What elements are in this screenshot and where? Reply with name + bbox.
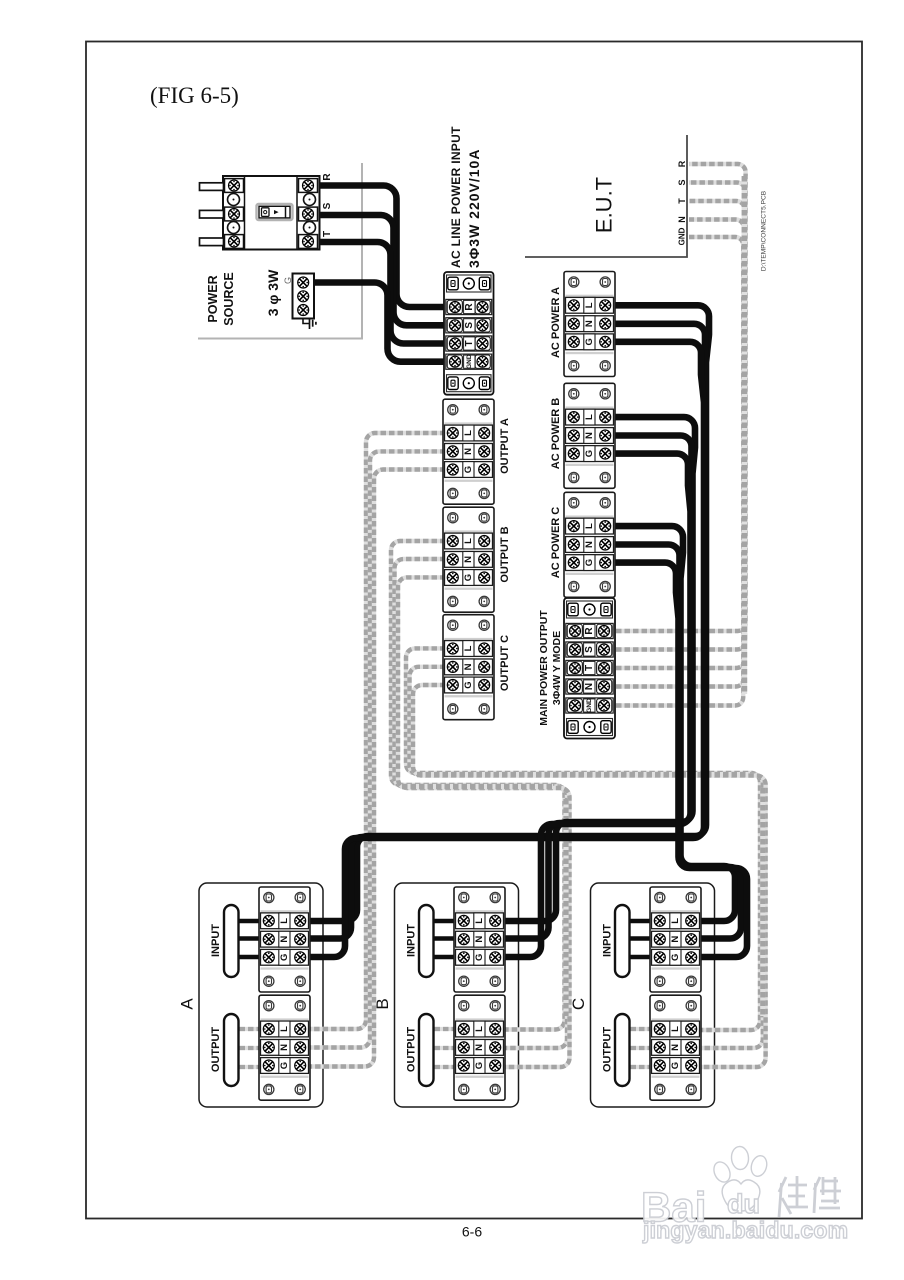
box C INPUT connector pill — [615, 905, 630, 977]
svg-text:T: T — [677, 198, 687, 204]
breaker T wire to AC line input T — [318, 242, 455, 344]
stub wire L: box C INPUT pill to strip — [622, 919, 663, 924]
stub wire G: box A INPUT pill to strip — [231, 955, 272, 960]
OUTPUT A terminal block — [443, 399, 494, 504]
box A OUTPUT terminal strip — [259, 995, 310, 1100]
box B INPUT connector pill — [419, 905, 434, 977]
svg-text:G: G — [670, 954, 681, 961]
stub wire N: box A INPUT pill to strip — [231, 936, 272, 941]
wire G: OUTPUT A block to box A OUTPUT — [302, 470, 454, 1067]
wire N: OUTPUT C block to box C OUTPUT — [410, 667, 763, 1048]
svg-text:N: N — [584, 432, 595, 439]
svg-text:T: T — [464, 340, 475, 346]
svg-text:N: N — [670, 1044, 681, 1051]
svg-text:N: N — [279, 936, 290, 943]
svg-text:OUTPUT: OUTPUT — [210, 1027, 222, 1073]
svg-text:du: du — [727, 1189, 760, 1219]
svg-text:MAIN POWER OUTPUT: MAIN POWER OUTPUT — [538, 610, 550, 726]
svg-text:L: L — [670, 1026, 681, 1032]
breaker S wire to AC line input S — [318, 215, 455, 325]
svg-text:G: G — [279, 954, 290, 961]
stub wire L: box B OUTPUT pill to strip — [426, 1027, 467, 1031]
MAIN POWER OUTPUT terminal block — [564, 598, 615, 739]
AC POWER C terminal block — [564, 492, 615, 597]
svg-text:G: G — [584, 559, 595, 566]
svg-text:L: L — [463, 645, 474, 651]
wire L: OUTPUT A block to box A OUTPUT — [302, 433, 454, 1029]
svg-text:3Φ3W 220V/10A: 3Φ3W 220V/10A — [466, 149, 482, 268]
svg-text:G: G — [279, 1062, 290, 1069]
svg-text:POWER: POWER — [206, 275, 220, 322]
wire L: OUTPUT C block to box C OUTPUT — [406, 648, 760, 1030]
svg-text:L: L — [584, 302, 595, 308]
svg-text:GND: GND — [678, 227, 687, 245]
svg-text:G: G — [463, 681, 474, 688]
AC POWER B terminal block — [564, 383, 615, 488]
svg-text:N: N — [474, 1044, 485, 1051]
stub wire N: box C OUTPUT pill to strip — [622, 1046, 663, 1050]
breaker R wire to AC line input R — [318, 186, 455, 308]
svg-text:G: G — [283, 277, 293, 284]
box C OUTPUT connector pill — [615, 1014, 630, 1086]
stub wire G: box B INPUT pill to strip — [426, 955, 467, 960]
box C OUTPUT terminal strip — [650, 995, 701, 1100]
OUTPUT C terminal block — [443, 615, 494, 720]
Baidu watermark — [641, 1146, 848, 1243]
svg-text:L: L — [474, 1026, 485, 1032]
svg-text:G: G — [584, 338, 595, 345]
svg-text:T: T — [322, 231, 333, 237]
svg-text:T: T — [584, 665, 595, 671]
svg-text:AC LINE POWER INPUT: AC LINE POWER INPUT — [449, 126, 463, 268]
wire N: OUTPUT B block to box B OUTPUT — [395, 559, 568, 1048]
wire L: OUTPUT B block to box B OUTPUT — [391, 541, 565, 1030]
svg-text:N: N — [279, 1044, 290, 1051]
svg-text:jingyan.baidu.com: jingyan.baidu.com — [642, 1217, 848, 1243]
svg-text:S: S — [322, 202, 333, 209]
AC line input terminal block R S T GND — [444, 272, 494, 395]
unit box C — [591, 883, 715, 1107]
box A INPUT connector pill — [224, 905, 239, 977]
svg-text:G: G — [474, 1062, 485, 1069]
wire G: AC POWER C to box C INPUT — [605, 563, 747, 957]
svg-text:L: L — [584, 523, 595, 529]
circuit breaker CB (3-pole) — [200, 176, 320, 250]
wire N: MAIN POWER OUTPUT to E.U.T — [616, 220, 744, 687]
wire N: OUTPUT A block to box A OUTPUT — [302, 451, 454, 1047]
svg-text:L: L — [474, 918, 485, 924]
stub wire N: box B OUTPUT pill to strip — [426, 1046, 467, 1050]
svg-text:G: G — [463, 466, 474, 473]
svg-text:OUTPUT B: OUTPUT B — [499, 526, 511, 582]
svg-text:(FIG 6-5): (FIG 6-5) — [150, 83, 239, 108]
wire G: AC POWER A to box A INPUT — [302, 342, 704, 957]
svg-text:L: L — [279, 918, 290, 924]
svg-text:INPUT: INPUT — [602, 924, 614, 957]
ground block G wire to AC line input GND — [312, 283, 455, 362]
box B INPUT terminal strip — [454, 887, 505, 992]
svg-text:S: S — [584, 646, 595, 653]
svg-text:L: L — [584, 414, 595, 420]
wire S: MAIN POWER OUTPUT to E.U.T — [616, 183, 745, 650]
E.U.T enclosure lines — [525, 135, 687, 257]
svg-text:N: N — [463, 448, 474, 455]
svg-text:N: N — [584, 683, 595, 690]
svg-text:OUTPUT A: OUTPUT A — [499, 418, 511, 474]
svg-text:D:\TEMP\CONNECT5.PCB: D:\TEMP\CONNECT5.PCB — [761, 190, 768, 271]
wire GND: MAIN POWER OUTPUT to E.U.T — [616, 237, 743, 706]
svg-text:AC POWER A: AC POWER A — [550, 287, 562, 358]
svg-text:L: L — [279, 1026, 290, 1032]
stub wire G: box A OUTPUT pill to strip — [231, 1065, 272, 1069]
stub wire N: box A OUTPUT pill to strip — [231, 1046, 272, 1050]
stub wire G: box C OUTPUT pill to strip — [622, 1065, 663, 1069]
wire L: AC POWER C to box C INPUT — [605, 526, 735, 921]
bundle trunk overdraw lines — [742, 176, 748, 694]
svg-text:L: L — [670, 918, 681, 924]
stub wire L: box A INPUT pill to strip — [231, 919, 272, 924]
svg-text:R: R — [584, 627, 595, 635]
wire N: AC POWER A to box A INPUT — [302, 324, 705, 939]
wire N: AC POWER C to box C INPUT — [605, 545, 741, 939]
box A INPUT terminal strip — [259, 887, 310, 992]
ground terminal block (3 screws) — [293, 274, 315, 319]
stub wire G: box C INPUT pill to strip — [622, 955, 663, 960]
svg-text:C: C — [569, 998, 588, 1010]
svg-text:GND: GND — [586, 698, 593, 713]
ground symbol — [303, 319, 309, 324]
box B OUTPUT terminal strip — [454, 995, 505, 1100]
svg-text:E.U.T: E.U.T — [592, 177, 617, 233]
svg-text:OUTPUT C: OUTPUT C — [499, 635, 511, 691]
svg-text:S: S — [677, 179, 687, 185]
svg-text:N: N — [677, 216, 687, 223]
svg-text:G: G — [474, 954, 485, 961]
OUTPUT B terminal block — [443, 507, 494, 612]
wire R: MAIN POWER OUTPUT to E.U.T — [616, 164, 746, 631]
power source bracket — [198, 163, 362, 339]
wire L: AC POWER A to box A INPUT — [302, 305, 709, 921]
svg-text:N: N — [670, 936, 681, 943]
wire G: OUTPUT C block to box C OUTPUT — [413, 685, 766, 1067]
svg-text:N: N — [463, 663, 474, 670]
svg-text:A: A — [178, 998, 197, 1010]
svg-text:N: N — [584, 541, 595, 548]
svg-text:N: N — [474, 936, 485, 943]
svg-text:L: L — [463, 538, 474, 544]
svg-text:INPUT: INPUT — [406, 924, 418, 957]
svg-text:OUTPUT: OUTPUT — [602, 1027, 614, 1073]
wire G: AC POWER B to box B INPUT — [497, 454, 691, 957]
stub wire N: box C INPUT pill to strip — [622, 936, 663, 941]
svg-text:N: N — [584, 320, 595, 327]
svg-text:G: G — [463, 574, 474, 581]
svg-text:L: L — [463, 430, 474, 436]
stub wire N: box B INPUT pill to strip — [426, 936, 467, 941]
AC POWER A terminal block — [564, 272, 615, 377]
svg-text:R: R — [464, 303, 475, 311]
svg-text:SOURCE: SOURCE — [222, 272, 236, 325]
svg-text:OUTPUT: OUTPUT — [406, 1027, 418, 1073]
wire T: MAIN POWER OUTPUT to E.U.T — [616, 201, 744, 668]
unit box B — [395, 883, 519, 1107]
svg-text:AC POWER B: AC POWER B — [550, 398, 562, 470]
unit box A — [199, 883, 323, 1107]
svg-text:6-6: 6-6 — [462, 1224, 482, 1240]
stub wire L: box C OUTPUT pill to strip — [622, 1027, 663, 1031]
stub wire G: box B OUTPUT pill to strip — [426, 1065, 467, 1069]
svg-text:R: R — [677, 160, 687, 167]
wire G: OUTPUT B block to box B OUTPUT — [398, 577, 570, 1067]
page border frame — [86, 42, 862, 1219]
svg-text:G: G — [670, 1062, 681, 1069]
wire L: AC POWER B to box B INPUT — [497, 417, 695, 921]
svg-text:S: S — [464, 322, 475, 329]
box B OUTPUT connector pill — [419, 1014, 434, 1086]
svg-text:INPUT: INPUT — [210, 924, 222, 957]
svg-text:R: R — [322, 173, 333, 181]
stub wire L: box B INPUT pill to strip — [426, 919, 467, 924]
box A OUTPUT connector pill — [224, 1014, 239, 1086]
svg-text:N: N — [463, 556, 474, 563]
wire N: AC POWER B to box B INPUT — [497, 436, 692, 939]
stub wire L: box A OUTPUT pill to strip — [231, 1027, 272, 1031]
svg-text:GND: GND — [466, 354, 473, 369]
svg-text:3 φ 3W: 3 φ 3W — [265, 269, 281, 316]
box C INPUT terminal strip — [650, 887, 701, 992]
svg-text:AC POWER C: AC POWER C — [550, 507, 562, 579]
svg-text:G: G — [584, 450, 595, 457]
svg-text:3Φ4W Y MODE: 3Φ4W Y MODE — [551, 631, 563, 705]
